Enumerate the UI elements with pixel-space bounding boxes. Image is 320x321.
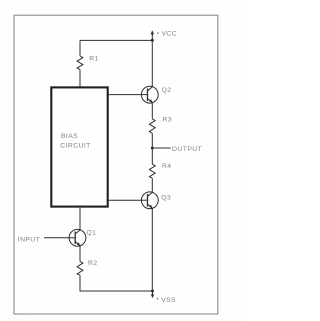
svg-text:. ... _ ..: . ... _ ..	[8, 315, 25, 321]
svg-text:Q1: Q1	[87, 229, 97, 236]
node OUTPUT junction	[151, 147, 154, 150]
svg-text:VCC: VCC	[162, 30, 178, 37]
VCC terminal	[151, 30, 159, 36]
wire R4 to Q3 collector	[151, 178, 153, 193]
svg-text:Q2: Q2	[162, 87, 172, 94]
bias circuit block	[51, 87, 107, 206]
wire R1 top lead	[79, 40, 81, 56]
resistor R3	[149, 119, 155, 134]
node junction VSS rail	[151, 290, 154, 293]
node junction VCC/R1	[151, 39, 154, 42]
resistor R4	[149, 164, 155, 178]
svg-text:INPUT: INPUT	[18, 237, 40, 244]
schematic border frame (decorative)	[14, 15, 218, 314]
svg-text:R3: R3	[163, 117, 173, 124]
wire Q3 emitter to VSS rail	[151, 208, 153, 291]
wire Q1 emitter to R2	[79, 246, 81, 262]
svg-text:VSS: VSS	[161, 297, 176, 304]
resistor R2	[77, 261, 83, 275]
resistor R1	[77, 56, 83, 70]
wire bias box to Q3 base	[108, 199, 142, 201]
wire OUTPUT stub	[152, 147, 170, 149]
wire VCC rail vertical (VCC to Q2 collector)	[151, 33, 153, 87]
svg-text:R4: R4	[162, 163, 172, 170]
wire bias box to Q2 base	[108, 94, 142, 96]
transistor Q1	[69, 229, 86, 246]
svg-text:OUTPUT: OUTPUT	[172, 146, 202, 153]
svg-text:Q3: Q3	[161, 195, 171, 202]
svg-text:R2: R2	[88, 260, 98, 267]
transistor Q2	[141, 86, 158, 103]
wire INPUT to Q1 base	[44, 237, 69, 239]
VSS terminal	[151, 291, 159, 300]
svg-text:R1: R1	[89, 56, 99, 63]
wire R1 bottom lead to bias box	[79, 69, 81, 87]
transistor Q3	[141, 192, 158, 209]
wire bias box bottom to Q1 collector	[79, 207, 81, 230]
svg-text:CIRCUIT: CIRCUIT	[60, 143, 90, 150]
wire R2 to bottom rail	[80, 275, 153, 291]
wire R1 top horizontal	[80, 39, 152, 41]
wire Q2 emitter to R3	[151, 103, 153, 119]
wire R3 to R4 through OUTPUT node	[151, 133, 153, 164]
svg-text:BIAS: BIAS	[61, 133, 78, 140]
